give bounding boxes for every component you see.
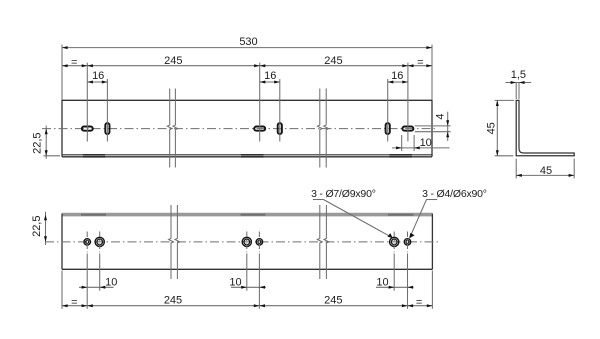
dim 4 arrows xyxy=(446,120,449,126)
dim 16 #2 xyxy=(260,81,280,83)
hole group1 big (Ø7/Ø9) xyxy=(95,237,104,246)
dim 22,5 bottom arrows xyxy=(44,215,47,221)
dim 22,5 bottom line xyxy=(45,212,47,245)
top view centreline xyxy=(42,128,437,130)
dim row 245 bottom arrows xyxy=(62,304,68,307)
svg-text:22,5: 22,5 xyxy=(31,132,43,153)
ext line right edge up xyxy=(431,45,433,100)
slot group3 vertical slot xyxy=(386,123,390,134)
hole group2 big (Ø7/Ø9) xyxy=(242,237,251,246)
dim 4 ext lines xyxy=(415,125,451,127)
hole projection marks group3 xyxy=(390,154,413,156)
dim 45 vert line xyxy=(496,100,498,155)
hole b1b centreline xyxy=(99,232,101,253)
ext bottom right edge xyxy=(431,271,433,309)
dim 10 b3 xyxy=(376,286,414,288)
dim 10 b3 ext xyxy=(407,254,409,309)
top view bend line xyxy=(62,154,432,156)
svg-text:45: 45 xyxy=(540,165,552,177)
svg-text:10: 10 xyxy=(229,276,241,288)
top view outline xyxy=(62,99,432,101)
svg-text:22,5: 22,5 xyxy=(31,215,43,236)
dim row 245 arrows xyxy=(62,64,68,67)
dim 10 top arrows xyxy=(396,146,402,149)
bottom view centreline xyxy=(45,241,438,243)
dim 22,5 top-view line xyxy=(45,126,47,159)
hole projection marks group2 xyxy=(241,154,264,156)
slot group1 vertical slot xyxy=(105,123,109,134)
ext bottom left edge xyxy=(61,271,63,309)
dim 45 horiz ext lines xyxy=(515,159,517,179)
svg-text:=: = xyxy=(71,56,77,68)
dim 10 b2 xyxy=(231,286,266,288)
dim 22,5 top-view ext xyxy=(44,155,61,157)
dim 1,5 arrows xyxy=(511,81,517,84)
dim 10 top line xyxy=(392,147,450,149)
hole b3b centreline xyxy=(393,232,395,253)
bottom view outline xyxy=(61,214,63,270)
dim 530 line xyxy=(62,47,432,49)
svg-text:45: 45 xyxy=(485,122,497,134)
svg-text:16: 16 xyxy=(92,70,104,82)
hole group2 small (Ø4/Ø6) xyxy=(256,239,262,245)
svg-text:10: 10 xyxy=(376,276,388,288)
bottom view break lines 2 xyxy=(317,205,322,279)
ext line left edge up xyxy=(61,45,63,100)
svg-text:=: = xyxy=(416,297,422,309)
dim 10 b1 ext xyxy=(86,254,88,309)
hole b1s centreline xyxy=(86,232,88,253)
dim row 245 line xyxy=(62,65,432,67)
hole b2s centreline xyxy=(258,232,260,253)
leader Ø4/Ø6 line xyxy=(427,199,438,201)
bottom view break lines 1 xyxy=(169,205,174,279)
svg-text:=: = xyxy=(417,56,423,68)
slot group2 horizontal slot xyxy=(254,127,265,131)
svg-text:3 - Ø4/Ø6x90°: 3 - Ø4/Ø6x90° xyxy=(422,188,487,200)
hole group3 big (Ø7/Ø9) xyxy=(390,237,399,246)
hole projection marks on bend xyxy=(81,214,106,216)
dim 530 arrows xyxy=(62,46,68,49)
dim 1,5 line xyxy=(505,82,531,84)
svg-text:245: 245 xyxy=(324,294,342,306)
slot group3 horizontal slot xyxy=(402,127,413,131)
ext+centre line g1h xyxy=(86,63,88,142)
dim 10 top ext lines xyxy=(401,135,403,151)
dim 16 #1 xyxy=(87,81,107,83)
ext+centre line g2v xyxy=(279,79,281,142)
svg-text:245: 245 xyxy=(164,294,182,306)
ext+centre line g3v xyxy=(387,79,389,142)
ext+centre line g3h xyxy=(407,63,409,142)
svg-text:245: 245 xyxy=(164,55,182,67)
dim 45 horiz arrows xyxy=(516,174,522,177)
svg-text:=: = xyxy=(71,297,77,309)
hole group1 small (Ø4/Ø6) xyxy=(84,239,90,245)
ext+centre line g1v xyxy=(106,79,108,142)
ext+centre line g2h xyxy=(259,63,261,142)
dim 45 vert arrows xyxy=(496,100,499,106)
hole projection marks group1 xyxy=(83,154,105,156)
svg-text:16: 16 xyxy=(391,70,403,82)
svg-text:4: 4 xyxy=(434,113,446,119)
dim 45 vert ext lines xyxy=(495,99,515,101)
svg-text:3 - Ø7/Ø9x90°: 3 - Ø7/Ø9x90° xyxy=(311,188,376,200)
bottom view bend edge (thick) xyxy=(62,213,432,217)
dim 10 b1 xyxy=(79,286,114,288)
svg-text:10: 10 xyxy=(105,276,117,288)
slot group2 vertical slot xyxy=(278,123,282,134)
dim 1,5 ext lines xyxy=(515,83,517,99)
svg-text:530: 530 xyxy=(239,36,257,48)
dim 4 line xyxy=(447,112,449,141)
hole group3 small (Ø4/Ø6) xyxy=(404,239,410,245)
dim 10 b2 ext xyxy=(258,254,260,309)
top view bottom edge xyxy=(62,156,432,158)
hole b2b centreline xyxy=(246,232,248,253)
dim 45 horiz line xyxy=(516,174,574,176)
svg-text:16: 16 xyxy=(264,70,276,82)
top view break lines 1 xyxy=(167,89,172,168)
dim row 245 bottom line xyxy=(62,305,432,307)
slot group1 horizontal slot xyxy=(82,127,93,131)
svg-text:245: 245 xyxy=(324,55,342,67)
dim 16 #3 xyxy=(388,81,408,83)
leader Ø7/Ø9 line xyxy=(313,199,324,201)
hole b3s centreline xyxy=(407,232,409,253)
top view break lines 2 xyxy=(317,89,322,168)
svg-text:1,5: 1,5 xyxy=(511,69,526,81)
section L-profile xyxy=(516,100,574,155)
dim 22,5 top-view arrows xyxy=(45,129,48,135)
svg-text:10: 10 xyxy=(420,137,432,149)
